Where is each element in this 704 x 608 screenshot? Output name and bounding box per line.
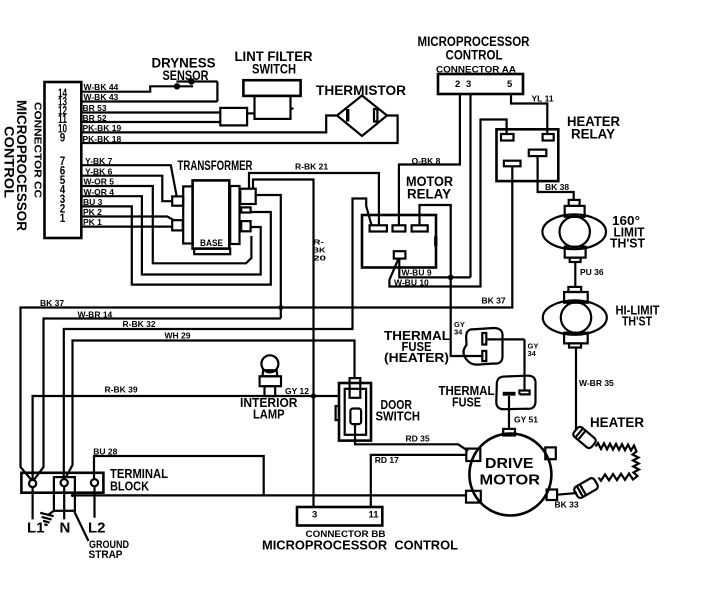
wire BK 37 (L1 to heater relay) bbox=[21, 166, 513, 479]
door switch bbox=[336, 378, 371, 441]
svg-text:BLOCK: BLOCK bbox=[110, 480, 149, 494]
wire N to drive motor (long bottom run) bbox=[71, 494, 466, 497]
wire PK 2 (pin 2) bbox=[81, 207, 174, 220]
svg-text:BK 38: BK 38 bbox=[545, 182, 569, 192]
svg-text:TRANSFORMER: TRANSFORMER bbox=[178, 158, 253, 173]
ground strap leader and label bbox=[75, 512, 130, 561]
wire BK 33 (motor to heater) bbox=[555, 493, 579, 510]
wire RD 35 (door switch to motor) bbox=[355, 424, 468, 451]
heater relay box bbox=[497, 129, 559, 181]
wire PU 36 (160 limit to hi-limit) bbox=[575, 262, 604, 287]
wire RD 17 (BB pin 11 to motor) bbox=[371, 455, 467, 507]
svg-text:34: 34 bbox=[454, 328, 463, 337]
svg-text:BK 37: BK 37 bbox=[482, 296, 506, 306]
connector CC pin numbers (rotated) bbox=[58, 88, 67, 225]
svg-text:GY 51: GY 51 bbox=[514, 415, 538, 425]
label MICROPROCESSOR CONTROL CONNECTOR AA bbox=[418, 34, 530, 76]
svg-text:11: 11 bbox=[369, 510, 380, 521]
heater element zigzag bbox=[596, 443, 640, 481]
lint filter connector box bbox=[220, 108, 254, 126]
label MICROPROCESSOR CONTROL (left, rotated) bbox=[2, 100, 30, 231]
interior lamp bbox=[260, 355, 281, 396]
svg-text:5: 5 bbox=[507, 79, 513, 90]
svg-text:R-: R- bbox=[313, 240, 325, 247]
heater plug upper bbox=[572, 426, 597, 450]
svg-text:WH 29: WH 29 bbox=[165, 331, 191, 341]
wire PK-BK 18 (pin 9) bbox=[81, 116, 397, 144]
wire BR 52 (pin 11) bbox=[81, 113, 220, 123]
svg-text:CONTROL: CONTROL bbox=[446, 48, 503, 63]
wire BU 3 (pin 3) bbox=[81, 197, 270, 285]
wire W-OR 5 (pin 5) bbox=[81, 177, 251, 264]
svg-text:PU 36: PU 36 bbox=[580, 267, 604, 277]
svg-text:SWITCH: SWITCH bbox=[376, 410, 421, 424]
svg-text:CONNECTOR AA: CONNECTOR AA bbox=[436, 65, 516, 76]
wire T3 to thermal fuse (heater) with W-BU9 junction bbox=[420, 205, 483, 356]
heater plug lower bbox=[573, 477, 599, 499]
wire R-BK 20 (transformer to connector BB pin 3) bbox=[253, 180, 326, 508]
svg-text:L1: L1 bbox=[27, 520, 45, 537]
wire O-BK 8 (AA pin 2 to motor relay T2) bbox=[399, 94, 460, 225]
label GY 12 bbox=[285, 386, 309, 396]
svg-text:DRIVE: DRIVE bbox=[485, 456, 534, 472]
svg-text:3: 3 bbox=[312, 510, 317, 521]
drive motor bbox=[466, 429, 557, 516]
connector AA box bbox=[438, 74, 523, 94]
svg-text:N: N bbox=[60, 520, 71, 537]
svg-text:BK: BK bbox=[313, 248, 326, 255]
svg-text:TH'ST: TH'ST bbox=[622, 315, 652, 329]
thermistor bbox=[337, 96, 387, 137]
labels L1 N L2 bbox=[27, 520, 106, 537]
svg-text:20: 20 bbox=[313, 256, 326, 263]
label GY 34 (first) bbox=[454, 320, 465, 337]
svg-text:SENSOR: SENSOR bbox=[163, 68, 209, 83]
label LINT FILTER SWITCH bbox=[235, 49, 313, 77]
label MOTOR RELAY bbox=[406, 174, 453, 202]
label MICROPROCESSOR CONTROL (bottom) bbox=[262, 538, 458, 553]
svg-text:HEATER: HEATER bbox=[590, 415, 644, 430]
svg-text:TH'ST: TH'ST bbox=[610, 237, 645, 251]
svg-text:MOTOR: MOTOR bbox=[480, 473, 541, 489]
label THERMISTOR bbox=[316, 83, 406, 98]
wire YL 11 (AA pin 5 to heater relay) bbox=[511, 93, 554, 134]
svg-text:MICROPROCESSOR CONTROL: MICROPROCESSOR CONTROL bbox=[262, 538, 458, 553]
svg-text:RD 35: RD 35 bbox=[406, 434, 430, 444]
lint filter switch body bbox=[243, 80, 300, 119]
svg-text:9: 9 bbox=[60, 133, 66, 145]
dryness sensor contacts bbox=[174, 78, 218, 101]
svg-text:W-BK 44: W-BK 44 bbox=[84, 82, 119, 92]
svg-text:W-BR 35: W-BR 35 bbox=[579, 378, 614, 388]
label CONNECTOR CC (rotated) bbox=[32, 102, 44, 198]
motor relay box bbox=[362, 215, 436, 268]
svg-text:YL 11: YL 11 bbox=[532, 93, 554, 103]
wire R-BK 21 (transformer to motor relay T1) bbox=[249, 162, 379, 226]
svg-text:3: 3 bbox=[466, 79, 471, 90]
label THERMAL FUSE (HEATER) bbox=[384, 329, 450, 365]
svg-text:R-BK 32: R-BK 32 bbox=[123, 319, 156, 329]
wire GY 34 (fuse heater to thermal fuse) bbox=[525, 339, 539, 390]
svg-text:THERMISTOR: THERMISTOR bbox=[316, 83, 406, 98]
terminal block bbox=[21, 473, 103, 511]
label HEATER RELAY bbox=[567, 114, 620, 142]
wire BU 28 (L2 riser) bbox=[93, 447, 263, 496]
wire R-BK 32 (N to motor relay T1 branch) bbox=[64, 199, 372, 480]
svg-text:STRAP: STRAP bbox=[89, 549, 123, 561]
wire W-BU 10 (motor relay to heater relay left-top) bbox=[389, 120, 506, 288]
wire BR 53 (pin 12) bbox=[81, 103, 220, 113]
svg-text:LAMP: LAMP bbox=[253, 408, 285, 422]
wire W-BR 14 (L1 to transformer riser) bbox=[34, 310, 281, 480]
wire W-BU 9 (motor relay to AA pin 3) bbox=[399, 259, 470, 278]
svg-text:R-BK 39: R-BK 39 bbox=[105, 385, 138, 395]
label CONNECTOR BB bbox=[306, 529, 386, 540]
svg-text:GY 12: GY 12 bbox=[285, 386, 309, 396]
label 160 LIMIT TH'ST bbox=[610, 214, 645, 251]
wire GY 51 (thermal fuse to drive motor) bbox=[509, 396, 538, 429]
wire PK 1 (pin 1) bbox=[81, 217, 172, 227]
wire Y-BK 6 (pin 6) bbox=[81, 166, 172, 201]
thermal fuse (heater) body bbox=[464, 328, 525, 365]
label INTERIOR LAMP bbox=[240, 396, 298, 422]
wire W-BR 14 riser (transformer T-R1 right) bbox=[256, 195, 283, 319]
svg-text:CONNECTOR CC: CONNECTOR CC bbox=[32, 102, 44, 198]
svg-text:L2: L2 bbox=[88, 520, 106, 537]
ground symbol bbox=[40, 511, 54, 525]
svg-text:FUSE: FUSE bbox=[452, 396, 481, 410]
label HEATER bbox=[590, 415, 644, 430]
connector CC box bbox=[45, 82, 82, 238]
wire PK-BK 19 (pin 10) bbox=[81, 116, 337, 134]
svg-text:R-BK 21: R-BK 21 bbox=[295, 162, 328, 172]
svg-text:BASE: BASE bbox=[200, 238, 223, 248]
wire W-BK 44 (pin 14) bbox=[81, 82, 193, 92]
terminal stubs L1 N L2 bbox=[33, 486, 95, 519]
connector BB bbox=[297, 507, 382, 526]
svg-text:W-BU 9: W-BU 9 bbox=[402, 268, 432, 278]
svg-text:(HEATER): (HEATER) bbox=[384, 351, 449, 365]
wire AA pin 3 drop (to W-BU 9) bbox=[469, 94, 471, 277]
label DRYNESS SENSOR bbox=[152, 56, 216, 84]
svg-text:RELAY: RELAY bbox=[571, 127, 615, 142]
wire WH 29 (N to door switch plunger) bbox=[66, 331, 355, 478]
wire R-BK 39 (L1 to door switch, through lamp) bbox=[33, 385, 339, 481]
label HI-LIMIT TH'ST bbox=[616, 304, 660, 329]
label THERMAL FUSE bbox=[439, 384, 495, 410]
svg-text:RD 17: RD 17 bbox=[375, 455, 399, 465]
svg-text:SWITCH: SWITCH bbox=[252, 62, 296, 77]
svg-text:RELAY: RELAY bbox=[407, 187, 451, 202]
svg-text:1: 1 bbox=[60, 213, 66, 225]
wire W-BK 43 (pin 13) bbox=[81, 92, 217, 102]
svg-text:2: 2 bbox=[455, 79, 460, 90]
label TERMINAL BLOCK bbox=[110, 467, 168, 494]
svg-text:34: 34 bbox=[528, 349, 537, 358]
wire W-OR 4 (pin 4) bbox=[81, 187, 260, 275]
160 degree limit thermostat bbox=[542, 200, 606, 262]
label TRANSFORMER bbox=[178, 158, 253, 173]
hi-limit thermostat bbox=[543, 287, 607, 348]
label DOOR SWITCH bbox=[376, 398, 421, 424]
wire W-BR 35 (hi-limit to heater) bbox=[576, 348, 614, 430]
transformer bbox=[172, 180, 256, 254]
thermal fuse body bbox=[496, 376, 535, 410]
wire Y-BK 7 (pin 7) bbox=[81, 156, 176, 197]
svg-text:CONTROL: CONTROL bbox=[2, 126, 17, 198]
wire BK 38 (heater relay to 160 limit thermostat) bbox=[538, 156, 574, 200]
